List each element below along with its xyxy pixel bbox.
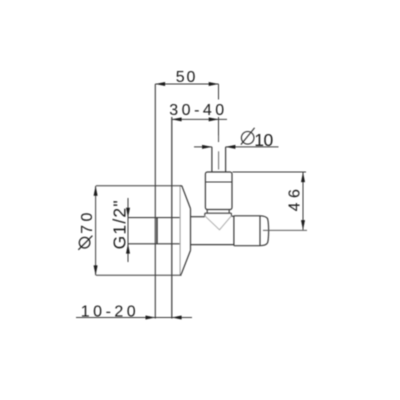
valve stem right edge: [225, 147, 227, 172]
stem centerline dash upper: [218, 136, 220, 142]
dimension D10: left arrowhead: [202, 145, 212, 149]
dimension 30-40: right arrowhead: [209, 117, 219, 121]
dimension D70: diameter symbol circle: [79, 237, 90, 248]
dimension D70: top extension line: [96, 185, 182, 187]
svg-text:46: 46: [286, 185, 303, 212]
bonnet cap parting line: [205, 181, 232, 183]
body platform right side: [230, 213, 232, 217]
dimension 46: top arrowhead: [301, 172, 305, 182]
valve body top right edge: [231, 215, 234, 217]
dimension 46: top extension line: [233, 171, 307, 173]
svg-text:30-40: 30-40: [169, 102, 227, 119]
stem centerline dash lower: [218, 151, 220, 169]
dimension 30-40: dimension line: [172, 118, 227, 120]
valve body bottom edge: [191, 244, 234, 246]
valve body top left edge: [191, 216, 205, 218]
svg-text:10-20: 10-20: [81, 304, 139, 321]
dimension D70: dimension line: [95, 186, 97, 275]
body platform left side: [204, 213, 206, 217]
dimension 46: dimension line: [302, 172, 304, 230]
outlet top edge: [234, 215, 260, 217]
wall line left: [154, 84, 156, 319]
dimension 30-40: left arrowhead: [172, 117, 182, 121]
dimension D10: right arrowhead: [226, 145, 236, 149]
valve stem left edge: [211, 147, 213, 172]
thread nipple bottom edge / G1/2 lower extension: [128, 243, 180, 245]
thread nipple end face: [156, 218, 158, 244]
dimension D10: right dimension line: [226, 146, 279, 148]
dimension D70: bottom arrowhead: [94, 265, 98, 275]
dimension D70: bottom extension line: [96, 274, 182, 276]
dimension D70: top arrowhead: [94, 186, 98, 196]
dimension G1/2: dimension line: [127, 198, 129, 262]
thread nipple top edge / G1/2 upper extension: [128, 217, 180, 219]
svg-text:50: 50: [176, 69, 197, 86]
valve bonnet (handle body): [205, 172, 232, 210]
dimension D10: diameter symbol slash: [241, 128, 255, 145]
extension line of valve axis (upper segment): [218, 84, 220, 100]
body platform top line: [205, 212, 232, 214]
svg-text:10: 10: [254, 130, 273, 150]
dimension G1/2: upper arrowhead (pointing down): [126, 208, 130, 218]
outlet cap inner line: [259, 216, 261, 246]
flange left face: [179, 186, 181, 275]
outlet junction line: [233, 216, 235, 246]
wall line right: [171, 117, 173, 319]
dimension 10-20: right arrowhead (outside, pointing left): [172, 316, 182, 320]
dimension 10-20: dimension line: [76, 317, 192, 319]
valve body left edge: [190, 209, 192, 251]
outlet centerline leader: [263, 229, 307, 231]
dimension 46: bottom arrowhead: [301, 220, 305, 230]
dimension 50: right arrowhead: [209, 82, 219, 86]
bonnet neck right edge: [228, 210, 230, 214]
outlet cap outline: [260, 216, 269, 246]
flange cone top diagonal: [180, 186, 190, 209]
outlet bottom edge: [234, 245, 260, 247]
valve seat V mark: [205, 216, 232, 230]
svg-text:70: 70: [79, 209, 96, 234]
dimension 50: left arrowhead: [155, 82, 165, 86]
dimension 10-20: left arrowhead (outside, pointing right): [146, 316, 156, 320]
bonnet neck left edge: [206, 210, 208, 214]
flange cone bottom diagonal: [180, 250, 190, 275]
dimension D10: diameter symbol circle: [241, 132, 254, 145]
dimension 50: dimension line: [155, 83, 218, 85]
dimension G1/2: lower arrowhead (pointing up): [126, 244, 130, 254]
dimension D10: left dimension line: [194, 146, 212, 148]
extension line of valve axis (lower segment): [218, 117, 220, 142]
dimension D70: diameter symbol slash: [78, 236, 92, 250]
svg-text:G1/2": G1/2": [109, 199, 129, 249]
